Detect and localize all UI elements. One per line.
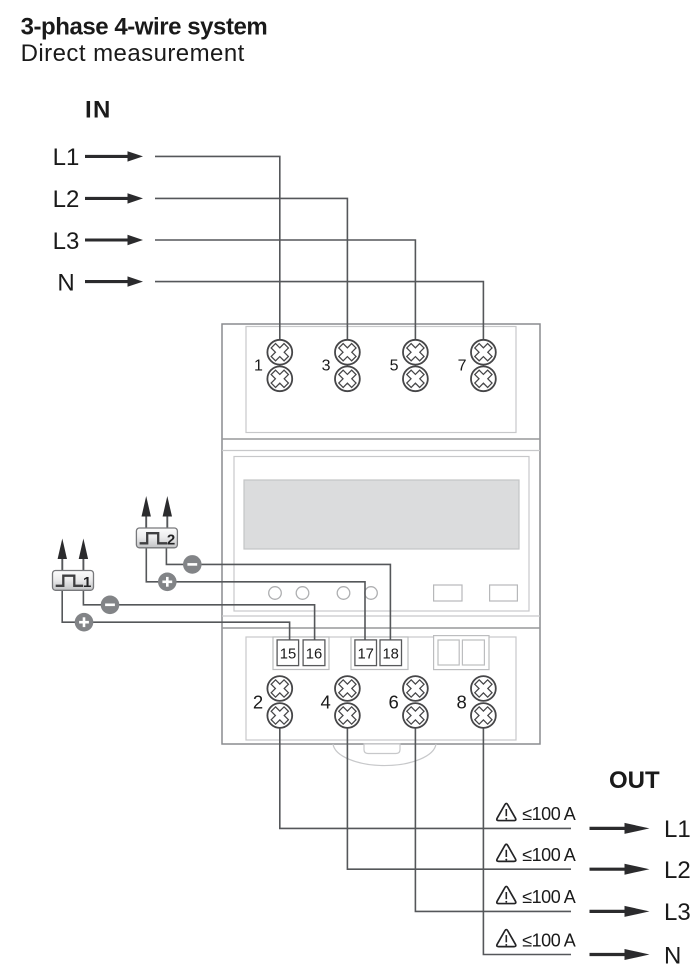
svg-text:6: 6 [389, 692, 399, 713]
svg-text:L3: L3 [664, 899, 691, 926]
svg-text:L2: L2 [664, 857, 691, 884]
svg-text:≤100 A: ≤100 A [522, 930, 575, 950]
svg-text:L1: L1 [53, 144, 80, 171]
svg-text:L1: L1 [664, 816, 691, 843]
svg-text:17: 17 [357, 646, 373, 662]
svg-text:L2: L2 [53, 186, 80, 213]
svg-text:3: 3 [322, 357, 331, 374]
svg-text:L3: L3 [53, 228, 80, 255]
svg-text:15: 15 [280, 646, 296, 662]
svg-text:8: 8 [457, 692, 467, 713]
svg-text:7: 7 [458, 357, 467, 374]
svg-text:1: 1 [83, 574, 91, 591]
svg-text:IN: IN [85, 97, 112, 124]
svg-text:3-phase 4-wire system: 3-phase 4-wire system [21, 14, 268, 41]
svg-text:1: 1 [254, 357, 263, 374]
svg-text:2: 2 [167, 531, 175, 548]
svg-text:Direct measurement: Direct measurement [21, 40, 245, 67]
svg-text:≤100 A: ≤100 A [522, 845, 575, 865]
svg-text:16: 16 [306, 646, 322, 662]
svg-text:2: 2 [253, 692, 263, 713]
svg-text:5: 5 [390, 357, 399, 374]
svg-text:N: N [57, 269, 74, 296]
svg-text:≤100 A: ≤100 A [522, 887, 575, 907]
svg-text:18: 18 [382, 646, 398, 662]
svg-text:≤100 A: ≤100 A [522, 804, 575, 824]
svg-text:4: 4 [321, 692, 331, 713]
svg-text:N: N [664, 942, 681, 968]
svg-text:OUT: OUT [609, 767, 660, 794]
